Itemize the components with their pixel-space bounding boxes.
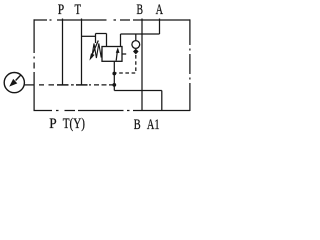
- gauge pilot dashed line: [39, 84, 113, 86]
- valve drain line: [113, 61, 115, 90]
- svg-text:T: T: [75, 2, 82, 18]
- A branch horizontal to valve: [121, 33, 160, 35]
- check valve ball (circle): [132, 41, 140, 49]
- svg-text:P: P: [49, 116, 56, 132]
- relief valve body: [102, 47, 122, 62]
- T branch to valve: [82, 35, 96, 37]
- pressure gauge (circle): [4, 73, 24, 93]
- port line T (top): [81, 19, 83, 85]
- T line blind end bar: [76, 84, 88, 86]
- drain main line to A1: [114, 90, 162, 92]
- gauge needle: [16, 75, 21, 81]
- valve top stub: [106, 34, 108, 47]
- svg-text:A: A: [156, 2, 164, 18]
- enclosure boundary top edge (chain line): [34, 19, 191, 21]
- port line B (through line): [141, 19, 143, 111]
- check valve stub: [135, 34, 137, 41]
- gauge connection tick: [24, 84, 33, 86]
- pilot vertical to spring: [95, 34, 97, 44]
- svg-text:B: B: [134, 117, 141, 133]
- check valve seat (filled diamond): [133, 49, 139, 55]
- junction dot 1: [112, 72, 116, 76]
- valve side tick: [122, 53, 126, 55]
- svg-text:B: B: [137, 2, 144, 18]
- enclosure boundary left edge (chain line): [33, 19, 35, 110]
- junction dot 2: [112, 83, 116, 87]
- port line P (top): [62, 19, 64, 85]
- enclosure boundary bottom edge (chain line): [34, 110, 191, 112]
- P line blind end bar: [57, 84, 69, 86]
- svg-text:T(Y): T(Y): [63, 116, 85, 132]
- pilot upper horizontal: [96, 33, 107, 35]
- svg-text:A1: A1: [147, 117, 160, 133]
- spring adjustment arrow: [93, 41, 99, 54]
- check valve drain dashed line: [116, 55, 136, 73]
- valve inlet drop from A branch: [120, 34, 122, 47]
- relief valve flow arrow: [116, 52, 117, 61]
- svg-text:P: P: [58, 2, 64, 18]
- enclosure boundary right edge (chain line): [189, 19, 191, 111]
- port line A (top drop): [159, 19, 161, 35]
- A1 drop to bottom: [161, 91, 163, 111]
- spring (zigzag): [92, 44, 102, 59]
